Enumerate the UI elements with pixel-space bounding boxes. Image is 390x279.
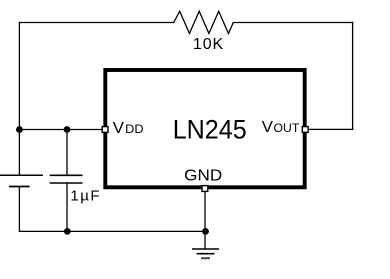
svg-text:OUT: OUT	[274, 121, 300, 135]
pin VDD square	[102, 127, 108, 133]
wire: VOUT to right vertical	[309, 128, 353, 130]
wire: bottom rail	[19, 230, 205, 232]
pin VOUT square	[302, 127, 308, 133]
wire: top rail left segment	[19, 22, 173, 24]
svg-text:GND: GND	[184, 168, 222, 185]
wire: battery - to bottom rail	[18, 187, 20, 232]
node: junction VDD rail / battery	[16, 126, 23, 133]
svg-text:10K: 10K	[193, 36, 224, 53]
capacitor value label 1uF	[70, 187, 101, 204]
IC U1 LN245 box	[105, 70, 304, 187]
svg-text:V: V	[113, 120, 125, 137]
wire: capacitor bottom branch	[66, 183, 68, 231]
svg-text:1µF: 1µF	[70, 187, 101, 204]
resistor value label 10K	[193, 36, 224, 53]
wire: VDD rail	[19, 129, 102, 131]
pin label GND	[184, 168, 222, 185]
pin GND square	[202, 186, 208, 192]
pin label VOUT	[262, 119, 300, 136]
svg-text:DD: DD	[125, 122, 144, 136]
wire: GND pin drop to ground	[204, 192, 206, 249]
wire: left vertical (top corner to battery +)	[18, 23, 20, 176]
wire: right vertical drop	[352, 23, 354, 130]
wire: top rail right segment	[233, 22, 352, 24]
resistor 10K	[174, 11, 234, 33]
svg-text:LN245: LN245	[173, 114, 247, 144]
node: junction VDD rail / capacitor	[64, 126, 71, 133]
svg-text:V: V	[262, 119, 274, 136]
capacitor C1	[50, 175, 83, 183]
wire: capacitor top branch	[66, 130, 68, 176]
pin label VDD	[113, 120, 144, 137]
battery	[0, 175, 43, 186]
node: junction bottom rail / ground	[202, 228, 209, 235]
node: junction bottom rail / capacitor	[64, 228, 71, 235]
ground	[192, 249, 219, 258]
IC name label LN245	[173, 114, 247, 144]
